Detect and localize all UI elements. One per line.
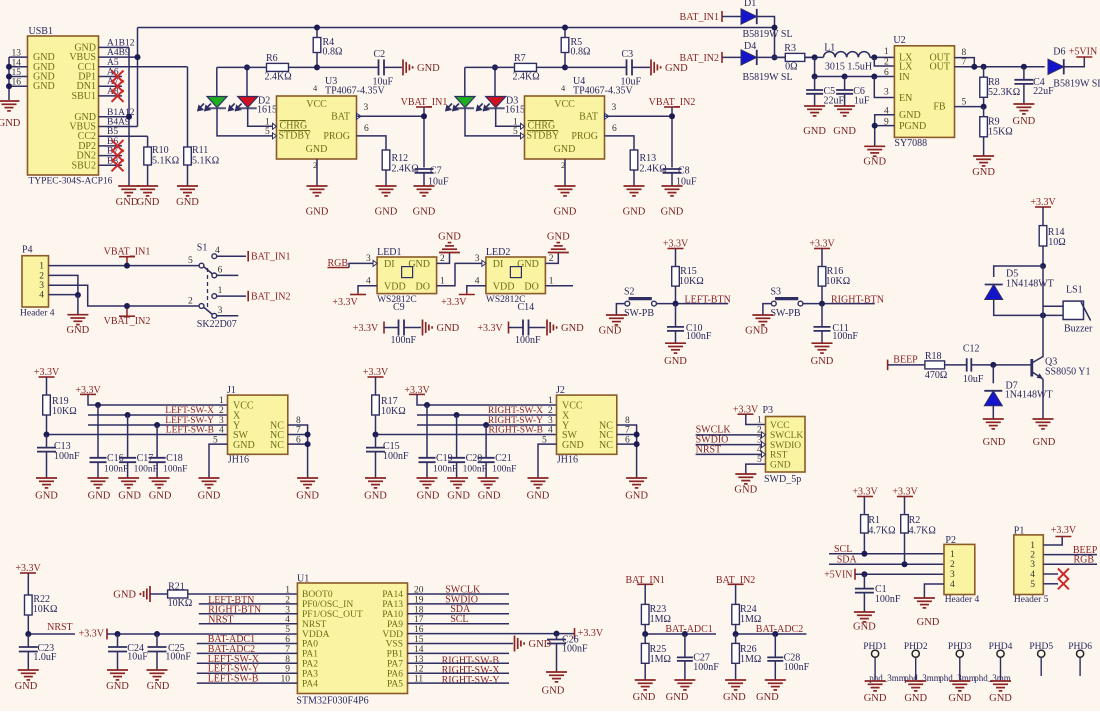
- wire BEEP to R18: [888, 364, 925, 366]
- svg-text:2: 2: [548, 406, 553, 416]
- svg-text:VCC: VCC: [770, 421, 790, 431]
- svg-text:1MΩ: 1MΩ: [740, 654, 761, 665]
- capacitor C9: [384, 327, 399, 329]
- wire S3 to net RIGHT-BTN: [803, 303, 875, 305]
- svg-text:100nF: 100nF: [163, 465, 187, 475]
- resistor R17: [375, 394, 377, 396]
- svg-text:VBAT_IN2: VBAT_IN2: [104, 316, 151, 327]
- svg-text:RIGHT-SW-Y: RIGHT-SW-Y: [488, 416, 543, 426]
- svg-text:GND: GND: [198, 491, 221, 502]
- svg-text:5: 5: [265, 127, 270, 137]
- ground C16: [88, 477, 109, 479]
- wire +5VIN to P2: [855, 573, 944, 575]
- port BEEP: [887, 360, 889, 371]
- pin 3 BAT of U3: [357, 113, 362, 119]
- svg-text:VDD: VDD: [382, 630, 403, 640]
- svg-text:GND: GND: [527, 491, 550, 502]
- svg-text:GND: GND: [1013, 116, 1036, 127]
- svg-text:SBU2: SBU2: [72, 160, 96, 171]
- svg-text:GND: GND: [417, 63, 440, 74]
- ground flag C14: [546, 320, 548, 336]
- svg-text:22uF: 22uF: [824, 96, 845, 107]
- svg-text:1N4148WT: 1N4148WT: [1005, 390, 1053, 401]
- capacitor C3: [565, 66, 627, 68]
- svg-text:R21: R21: [168, 581, 185, 592]
- port BAT_IN1 top: [721, 11, 723, 22]
- svg-text:GND: GND: [149, 491, 172, 502]
- wire J2 pin5 to ground: [538, 444, 557, 478]
- svg-text:GND: GND: [137, 197, 160, 208]
- ground C8 GND: [662, 185, 683, 187]
- svg-text:+3.3V: +3.3V: [477, 323, 503, 334]
- svg-text:P3: P3: [763, 405, 774, 416]
- svg-text:100nF: 100nF: [515, 335, 541, 346]
- svg-text:PA0: PA0: [302, 640, 318, 650]
- svg-text:BAT-ADC1: BAT-ADC1: [665, 624, 712, 635]
- resistor R1: [863, 514, 865, 516]
- capacitor C19: [426, 405, 428, 458]
- svg-text:100nF: 100nF: [875, 594, 901, 605]
- svg-text:C12: C12: [963, 344, 980, 355]
- ground D7: [983, 418, 1004, 420]
- svg-text:PA9: PA9: [387, 620, 403, 630]
- wire LED1 GND pin up: [437, 253, 450, 264]
- svg-text:GND: GND: [734, 484, 757, 495]
- capacitor C13: [46, 435, 48, 448]
- svg-text:Header 5: Header 5: [1014, 595, 1049, 605]
- svg-text:R1: R1: [868, 515, 880, 526]
- capacitor C4: [1023, 67, 1025, 80]
- svg-text:VCC: VCC: [554, 99, 575, 110]
- svg-text:R2: R2: [909, 515, 921, 526]
- svg-text:BAT_IN2: BAT_IN2: [251, 292, 290, 303]
- wire EN tie: [874, 77, 894, 98]
- wire P4 pin3 to S1 lower: [49, 285, 200, 306]
- svg-text:B4A9: B4A9: [107, 118, 130, 128]
- svg-text:SBU1: SBU1: [72, 91, 96, 102]
- svg-text:GND: GND: [15, 681, 38, 692]
- svg-text:100nF: 100nF: [784, 662, 810, 673]
- svg-text:Header 4: Header 4: [20, 309, 55, 319]
- svg-text:100nF: 100nF: [693, 662, 719, 673]
- ground J1 NC: [297, 477, 318, 479]
- ground C1: [854, 611, 875, 613]
- ground C26: [546, 671, 567, 673]
- svg-text:100nF: 100nF: [383, 451, 409, 462]
- capacitor C18: [156, 425, 158, 458]
- no-connect marks A6 A7 A8: [112, 71, 124, 83]
- svg-text:5.1KΩ: 5.1KΩ: [192, 156, 219, 167]
- svg-text:GND: GND: [633, 692, 656, 703]
- resistor R6: [217, 66, 267, 68]
- wire green LED to STDBY: [465, 108, 521, 136]
- svg-text:BAT_IN1: BAT_IN1: [251, 252, 290, 263]
- svg-text:1: 1: [219, 396, 224, 406]
- wire VDDA rail: [107, 633, 297, 635]
- svg-text:R13: R13: [640, 153, 657, 164]
- svg-text:GND: GND: [306, 207, 329, 218]
- wire net BAT-ADC2: [736, 633, 807, 635]
- svg-text:D4: D4: [744, 41, 756, 52]
- wire L1 to LX pins: [870, 56, 895, 58]
- svg-text:+3.3V: +3.3V: [353, 323, 379, 334]
- capacitor C11: [821, 304, 823, 327]
- svg-text:RIGHT-SW-Y: RIGHT-SW-Y: [442, 675, 500, 686]
- svg-text:GND: GND: [554, 207, 577, 218]
- wire J1 pin5 to ground: [209, 444, 228, 478]
- svg-text:D1: D1: [744, 0, 756, 9]
- wire P1 pin3 RGB: [1043, 563, 1097, 565]
- svg-text:100nF: 100nF: [492, 465, 516, 475]
- svg-text:GND: GND: [478, 491, 501, 502]
- svg-text:3: 3: [950, 570, 955, 580]
- resistor R8: [983, 67, 985, 77]
- wire CC1 to R11: [187, 67, 189, 147]
- svg-text:2: 2: [313, 160, 317, 170]
- svg-text:R10: R10: [152, 145, 169, 156]
- capacitor C7: [415, 168, 434, 170]
- capacitor C23: [27, 634, 29, 647]
- svg-text:NC: NC: [599, 440, 613, 451]
- svg-text:3: 3: [548, 416, 553, 426]
- svg-text:LEFT-SW-X: LEFT-SW-X: [165, 406, 214, 416]
- svg-text:1N4148WT: 1N4148WT: [1006, 279, 1054, 290]
- svg-text:S1: S1: [197, 243, 208, 254]
- svg-text:GND: GND: [904, 693, 927, 704]
- pins 4 9 GND PGND of U2: [875, 115, 895, 126]
- ground S2: [606, 314, 627, 316]
- wire top VBUS rail: [138, 27, 775, 29]
- svg-text:GND: GND: [983, 437, 1006, 448]
- svg-text:1615: 1615: [505, 105, 525, 116]
- resistor R10: [147, 146, 149, 148]
- svg-text:3: 3: [364, 103, 369, 113]
- svg-text:SWCLK: SWCLK: [770, 431, 803, 441]
- ground flag after C3: [632, 66, 650, 68]
- svg-text:PA10: PA10: [382, 610, 403, 620]
- svg-text:SW-PB: SW-PB: [771, 308, 801, 319]
- USB1 left pins 13-16: [9, 56, 28, 58]
- wire J2 X row: [417, 414, 557, 416]
- svg-text:BAT_IN1: BAT_IN1: [680, 12, 719, 23]
- svg-text:GND: GND: [106, 681, 129, 692]
- svg-text:10KΩ: 10KΩ: [826, 276, 851, 287]
- svg-text:LS1: LS1: [1066, 285, 1083, 296]
- svg-text:PROG: PROG: [323, 131, 350, 142]
- svg-text:BAT-ADC2: BAT-ADC2: [756, 624, 803, 635]
- svg-text:100nF: 100nF: [562, 644, 588, 655]
- svg-text:+5VIN: +5VIN: [824, 570, 852, 581]
- svg-text:GND: GND: [853, 621, 876, 632]
- svg-text:JH16: JH16: [228, 455, 249, 466]
- svg-text:3015 1.5uH: 3015 1.5uH: [825, 62, 872, 73]
- wire charge-LED rail: [464, 67, 466, 96]
- svg-text:GND: GND: [88, 491, 111, 502]
- svg-text:SS8050 Y1: SS8050 Y1: [1045, 367, 1090, 378]
- svg-text:SWD_5p: SWD_5p: [764, 474, 801, 485]
- svg-text:+3.3V: +3.3V: [578, 628, 604, 639]
- svg-text:1uF: 1uF: [854, 96, 870, 107]
- svg-text:OUT: OUT: [929, 62, 950, 73]
- svg-text:PA3: PA3: [302, 669, 318, 679]
- svg-text:GND: GND: [554, 144, 576, 155]
- svg-text:1615: 1615: [257, 105, 277, 116]
- svg-text:DO: DO: [524, 282, 538, 293]
- port BAT_IN2 at S1: [247, 291, 249, 302]
- diode D7: [992, 365, 994, 383]
- svg-text:SW-PB: SW-PB: [624, 308, 654, 319]
- ground C10: [665, 342, 686, 344]
- svg-text:GND: GND: [723, 692, 746, 703]
- wire P4 pin4 to ground node: [49, 294, 78, 296]
- wire LED2 GND pin up: [545, 253, 558, 264]
- ground C11: [812, 342, 833, 344]
- svg-text:100nF: 100nF: [832, 331, 858, 342]
- svg-text:S3: S3: [771, 287, 782, 298]
- capacitor C16: [97, 405, 99, 458]
- svg-text:DI: DI: [493, 259, 504, 270]
- capacitor C8: [663, 168, 682, 170]
- pin 3 BAT of U4: [605, 113, 610, 119]
- resistor R24: [735, 603, 737, 605]
- svg-text:R7: R7: [514, 53, 526, 64]
- svg-text:GND: GND: [948, 693, 971, 704]
- capacitor C15: [375, 435, 377, 448]
- ground R12 GND: [376, 185, 397, 187]
- wire red LED to CHRG: [496, 108, 521, 126]
- ground U3 GND: [307, 185, 328, 187]
- svg-text:1: 1: [265, 118, 270, 128]
- svg-text:100nF: 100nF: [134, 465, 158, 475]
- wire R3 to L1 node: [805, 56, 824, 58]
- resistor R9: [983, 107, 985, 117]
- capacitor C25: [156, 634, 158, 647]
- capacitor C20: [456, 415, 458, 458]
- ground S3: [752, 314, 773, 316]
- wire D1 cathode to node: [757, 17, 775, 58]
- svg-text:100nF: 100nF: [463, 465, 487, 475]
- svg-text:5: 5: [285, 625, 290, 635]
- svg-text:GND: GND: [33, 81, 55, 92]
- USB1 right pin stubs and net labels: [99, 46, 130, 48]
- ground below R10: [137, 185, 158, 187]
- ground R13 GND: [624, 185, 645, 187]
- svg-text:GND: GND: [116, 197, 139, 208]
- pin 2 GND of U4: [564, 159, 566, 186]
- wire output rail: [974, 66, 1044, 68]
- ground J2 NC: [626, 477, 647, 479]
- resistor R7: [465, 66, 515, 68]
- svg-text:1: 1: [285, 586, 290, 596]
- wire U1 pin15 VSS ground flag: [408, 643, 514, 645]
- svg-text:LEFT-BTN: LEFT-BTN: [685, 294, 731, 305]
- svg-text:100nF: 100nF: [165, 652, 191, 663]
- ground J1 pin5: [199, 477, 220, 479]
- svg-text:5: 5: [188, 256, 193, 266]
- resistor R14: [1042, 225, 1044, 227]
- svg-text:0Ω: 0Ω: [785, 62, 797, 73]
- svg-text:B5819W SL: B5819W SL: [743, 29, 793, 40]
- ground C25: [147, 669, 168, 671]
- svg-text:EN: EN: [899, 93, 912, 104]
- svg-text:10KΩ: 10KΩ: [33, 604, 58, 615]
- svg-text:+5VIN: +5VIN: [1069, 47, 1097, 58]
- svg-text:DI: DI: [384, 259, 395, 270]
- svg-text:3: 3: [366, 254, 371, 264]
- svg-text:GND: GND: [811, 356, 834, 367]
- svg-text:+3.3V: +3.3V: [1051, 525, 1077, 536]
- svg-text:10KΩ: 10KΩ: [381, 406, 406, 417]
- pin 2 GND of U3: [316, 159, 318, 186]
- svg-text:6: 6: [364, 124, 369, 134]
- wire P1 pin2 BEEP: [1043, 554, 1097, 556]
- resistor R16: [821, 266, 823, 268]
- ground U2 GND: [864, 145, 885, 147]
- svg-text:RIGHT-BTN: RIGHT-BTN: [831, 294, 884, 305]
- wire J2 SW row: [376, 434, 557, 436]
- capacitor C2: [317, 66, 379, 68]
- wire charge-LED rail: [216, 67, 218, 96]
- wire P2 pin4 ground: [924, 584, 944, 598]
- svg-text:GND: GND: [375, 207, 398, 218]
- svg-text:1.0uF: 1.0uF: [33, 652, 57, 663]
- wire net BAT-ADC1: [645, 633, 716, 635]
- wire green LED to STDBY: [217, 108, 273, 136]
- svg-text:GND: GND: [803, 126, 826, 137]
- wire CC2 to R10: [147, 136, 149, 147]
- resistor R12: [385, 147, 387, 150]
- ground flag C9: [422, 320, 424, 336]
- resistor R4: [316, 28, 318, 38]
- ground LED2 flipped: [557, 252, 559, 254]
- ground C18: [149, 477, 170, 479]
- svg-text:GND: GND: [437, 323, 460, 334]
- capacitor C27: [684, 634, 686, 657]
- wire U1 pin14 PB1 stub: [408, 652, 510, 654]
- svg-text:PA6: PA6: [387, 669, 403, 679]
- svg-text:100nF: 100nF: [686, 331, 712, 342]
- port BAT_IN1 at S1: [247, 251, 249, 262]
- diode D5 branch: [994, 266, 1043, 277]
- ground J2 pin5: [528, 477, 549, 479]
- svg-text:GND: GND: [113, 590, 136, 601]
- svg-text:PA14: PA14: [382, 590, 403, 600]
- svg-text:GND: GND: [770, 460, 791, 470]
- wire red LED to CHRG: [248, 108, 273, 126]
- svg-text:1: 1: [513, 118, 518, 128]
- svg-text:PB1: PB1: [387, 650, 404, 660]
- ground P3: [735, 473, 756, 475]
- capacitor C26: [556, 634, 558, 640]
- wire P1 pin4 nc: [1043, 573, 1058, 575]
- svg-text:0.8Ω: 0.8Ω: [571, 47, 591, 58]
- svg-text:8: 8: [962, 48, 967, 58]
- svg-text:4: 4: [548, 426, 553, 436]
- wire LED2 VDD to +3.3V: [467, 286, 486, 292]
- ground C20: [447, 477, 468, 479]
- svg-text:TYPEC-304S-ACP16: TYPEC-304S-ACP16: [29, 177, 113, 187]
- svg-text:LX: LX: [899, 62, 913, 73]
- svg-text:2.4KΩ: 2.4KΩ: [265, 72, 292, 83]
- svg-text:2: 2: [549, 254, 554, 264]
- svg-text:STDBY: STDBY: [279, 131, 312, 142]
- svg-text:GND: GND: [972, 167, 995, 178]
- svg-text:PA7: PA7: [387, 660, 403, 670]
- svg-text:GND: GND: [417, 491, 440, 502]
- svg-text:LEFT-SW-Y: LEFT-SW-Y: [165, 416, 214, 426]
- svg-text:+3.3V: +3.3V: [441, 297, 467, 308]
- svg-text:+3.3V: +3.3V: [332, 297, 358, 308]
- ground C27: [674, 679, 695, 681]
- wire J2 Y row: [417, 424, 557, 426]
- svg-text:3: 3: [1030, 560, 1035, 570]
- transistor Q3: [1030, 359, 1033, 377]
- svg-text:GND: GND: [917, 617, 940, 628]
- svg-text:PROG: PROG: [571, 131, 598, 142]
- resistor R19: [46, 394, 48, 396]
- ground LED1 flipped: [449, 252, 451, 254]
- svg-text:NRST: NRST: [302, 620, 326, 630]
- wire emitter to ground: [1042, 379, 1044, 419]
- wire P4 pin1 to S1: [49, 265, 200, 267]
- svg-text:C21: C21: [495, 453, 512, 464]
- svg-text:5.1KΩ: 5.1KΩ: [152, 156, 179, 167]
- svg-text:10uF: 10uF: [963, 374, 984, 385]
- svg-text:6: 6: [884, 68, 889, 78]
- svg-text:DO: DO: [416, 282, 430, 293]
- svg-text:10KΩ: 10KΩ: [679, 276, 704, 287]
- svg-text:GND: GND: [364, 491, 387, 502]
- capacitor C21: [485, 425, 487, 458]
- capacitor C12: [966, 358, 968, 371]
- wire S2 left to ground: [616, 304, 625, 315]
- svg-text:STM32F030F4P6: STM32F030F4P6: [296, 695, 368, 706]
- svg-text:C14: C14: [518, 302, 535, 313]
- ground USB shield GND: [0, 100, 20, 102]
- svg-text:GND: GND: [864, 693, 887, 704]
- svg-text:GND: GND: [561, 323, 584, 334]
- wire P1 pin1 +3.3V: [1043, 537, 1062, 546]
- svg-text:R11: R11: [192, 145, 208, 156]
- svg-text:PA13: PA13: [382, 600, 403, 610]
- svg-text:PGND: PGND: [899, 121, 926, 132]
- svg-text:4: 4: [950, 580, 955, 590]
- wire LED1 DO to LED2 DI: [437, 263, 482, 285]
- ground Q3: [1033, 418, 1054, 420]
- wire S3 left to ground: [763, 304, 772, 315]
- svg-text:STDBY: STDBY: [527, 131, 560, 142]
- svg-text:4: 4: [219, 426, 224, 436]
- svg-text:GND: GND: [661, 207, 684, 218]
- resistor R2: [904, 514, 906, 516]
- svg-text:GND: GND: [35, 491, 58, 502]
- svg-text:16: 16: [12, 78, 22, 88]
- ground C24: [107, 669, 128, 671]
- svg-text:0.8Ω: 0.8Ω: [323, 47, 343, 58]
- svg-text:GND: GND: [413, 207, 436, 218]
- svg-text:TP4067-4.35V: TP4067-4.35V: [573, 86, 634, 97]
- ground C15: [365, 477, 386, 479]
- svg-text:10KΩ: 10KΩ: [52, 406, 77, 417]
- svg-text:R6: R6: [266, 53, 278, 64]
- svg-text:VCC: VCC: [306, 99, 327, 110]
- capacitor C5: [814, 77, 816, 91]
- wire LED1 VDD to +3.3V: [358, 286, 377, 292]
- svg-text:C8: C8: [678, 166, 690, 177]
- svg-text:1: 1: [218, 286, 223, 296]
- svg-text:15KΩ: 15KΩ: [988, 127, 1013, 138]
- svg-text:3: 3: [218, 306, 223, 316]
